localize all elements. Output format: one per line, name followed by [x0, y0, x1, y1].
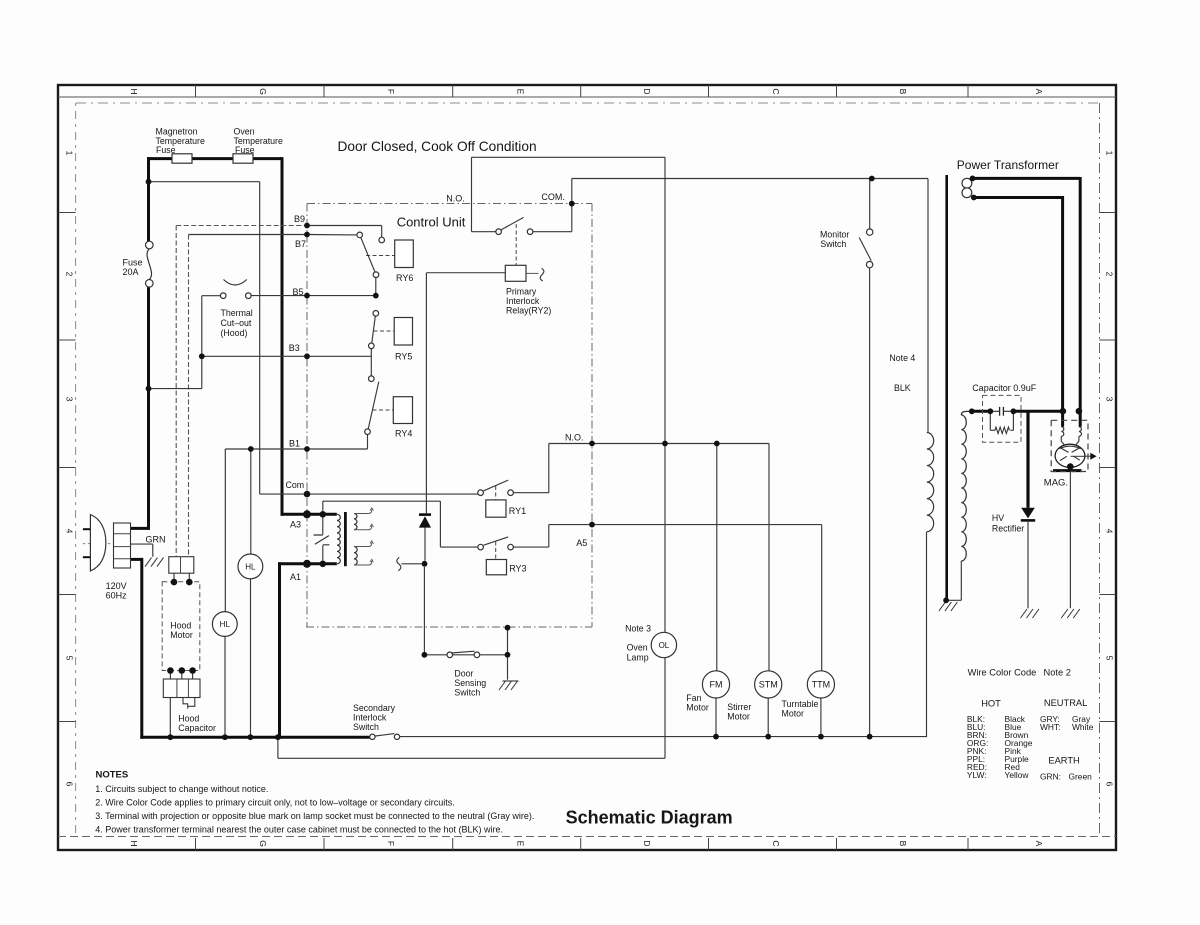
- svg-text:A: A: [1034, 89, 1044, 95]
- svg-text:Monitor: Monitor: [820, 230, 849, 240]
- svg-text:NOTES: NOTES: [96, 770, 129, 781]
- svg-text:BLK: BLK: [894, 383, 911, 393]
- svg-text:Control Unit: Control Unit: [397, 215, 466, 230]
- svg-text:Hood: Hood: [170, 621, 191, 631]
- svg-text:Switch: Switch: [353, 722, 379, 732]
- svg-text:B: B: [898, 841, 908, 847]
- svg-text:A3: A3: [290, 520, 301, 530]
- svg-text:Yellow: Yellow: [1005, 770, 1030, 780]
- svg-text:20A: 20A: [123, 267, 139, 277]
- svg-text:FM: FM: [710, 680, 723, 690]
- svg-text:E: E: [516, 841, 526, 847]
- svg-text:A1: A1: [290, 572, 301, 582]
- svg-text:5: 5: [65, 656, 75, 661]
- svg-text:Cut–out: Cut–out: [221, 318, 252, 328]
- svg-text:Door Closed, Cook Off Conditio: Door Closed, Cook Off Condition: [338, 139, 537, 154]
- svg-text:B3: B3: [289, 343, 300, 353]
- svg-text:Fan: Fan: [686, 693, 701, 703]
- svg-text:Lamp: Lamp: [627, 653, 649, 663]
- svg-text:HL: HL: [220, 620, 231, 629]
- svg-text:Secondary: Secondary: [353, 703, 396, 713]
- svg-text:Schematic Diagram: Schematic Diagram: [566, 808, 733, 828]
- svg-text:5: 5: [1105, 656, 1115, 661]
- svg-text:F: F: [386, 89, 396, 94]
- svg-text:N.O.: N.O.: [565, 433, 584, 443]
- svg-text:Motor: Motor: [727, 712, 750, 722]
- svg-text:H: H: [129, 840, 139, 846]
- svg-text:Fuse: Fuse: [235, 145, 255, 155]
- svg-text:GRN: GRN: [146, 535, 166, 545]
- svg-text:B7: B7: [295, 239, 306, 249]
- svg-text:RY6: RY6: [396, 273, 413, 283]
- svg-text:B1: B1: [289, 439, 300, 449]
- svg-text:F: F: [386, 841, 396, 846]
- svg-text:4: 4: [1105, 529, 1115, 534]
- svg-text:B5: B5: [293, 287, 304, 297]
- svg-text:G: G: [258, 840, 268, 847]
- svg-text:Turntable: Turntable: [782, 699, 819, 709]
- svg-text:RY5: RY5: [395, 352, 412, 362]
- svg-text:Note 3: Note 3: [625, 624, 651, 634]
- svg-text:HV: HV: [992, 513, 1004, 523]
- svg-text:E: E: [516, 89, 526, 95]
- svg-text:Fuse: Fuse: [156, 145, 176, 155]
- svg-text:YLW:: YLW:: [967, 770, 987, 780]
- svg-text:Oven: Oven: [627, 643, 648, 653]
- svg-text:G: G: [258, 88, 268, 95]
- svg-text:D: D: [642, 88, 652, 94]
- svg-text:Thermal: Thermal: [221, 308, 253, 318]
- svg-text:60Hz: 60Hz: [106, 591, 128, 601]
- svg-text:Note 2: Note 2: [1044, 668, 1071, 678]
- svg-text:Switch: Switch: [820, 239, 846, 249]
- svg-text:Interlock: Interlock: [506, 296, 540, 306]
- svg-text:EARTH: EARTH: [1048, 755, 1079, 765]
- svg-text:2: 2: [1105, 272, 1115, 277]
- svg-text:Hood: Hood: [178, 714, 199, 724]
- svg-text:RY1: RY1: [509, 506, 526, 516]
- svg-text:Motor: Motor: [170, 630, 193, 640]
- svg-text:Stirrer: Stirrer: [727, 702, 751, 712]
- svg-text:Switch: Switch: [454, 687, 480, 697]
- svg-text:Primary: Primary: [506, 287, 537, 297]
- svg-text:Wire Color Code: Wire Color Code: [968, 668, 1037, 678]
- svg-text:Motor: Motor: [686, 703, 709, 713]
- svg-text:RY4: RY4: [395, 429, 412, 439]
- svg-text:Note 4: Note 4: [889, 353, 915, 363]
- svg-text:Magnetron: Magnetron: [156, 127, 198, 137]
- svg-text:Oven: Oven: [234, 127, 255, 137]
- svg-text:6: 6: [1105, 782, 1115, 787]
- svg-text:4. Power transformer terminal: 4. Power transformer terminal nearest th…: [95, 825, 503, 835]
- svg-text:Com: Com: [286, 480, 305, 490]
- svg-text:B9: B9: [294, 214, 305, 224]
- svg-text:2. Wire Color Code applies to: 2. Wire Color Code applies to primary ci…: [95, 797, 454, 807]
- svg-text:H: H: [129, 88, 139, 94]
- svg-text:C: C: [771, 840, 781, 846]
- svg-text:4: 4: [65, 529, 75, 534]
- svg-text:STM: STM: [759, 680, 778, 690]
- svg-text:Green: Green: [1069, 772, 1093, 782]
- svg-text:WHT:: WHT:: [1040, 722, 1060, 732]
- svg-text:A5: A5: [576, 538, 587, 548]
- svg-text:Motor: Motor: [782, 709, 805, 719]
- svg-text:OL: OL: [659, 641, 670, 650]
- svg-text:Rectifier: Rectifier: [992, 524, 1024, 534]
- svg-text:TTM: TTM: [812, 680, 831, 690]
- svg-text:Fuse: Fuse: [123, 258, 143, 268]
- svg-text:3: 3: [1105, 397, 1115, 402]
- svg-text:Relay(RY2): Relay(RY2): [506, 306, 551, 316]
- svg-text:A: A: [1034, 841, 1044, 847]
- svg-text:1: 1: [1105, 151, 1115, 156]
- svg-text:NEUTRAL: NEUTRAL: [1044, 698, 1087, 708]
- svg-text:Power Transformer: Power Transformer: [957, 158, 1059, 172]
- svg-text:B: B: [898, 89, 908, 95]
- svg-text:Interlock: Interlock: [353, 713, 387, 723]
- svg-text:(Hood): (Hood): [221, 328, 248, 338]
- svg-text:3. Terminal with projection o: 3. Terminal with projection or opposite …: [95, 811, 534, 821]
- svg-text:2: 2: [65, 272, 75, 277]
- svg-text:MAG.: MAG.: [1044, 478, 1068, 489]
- svg-text:1. Circuits subject to change: 1. Circuits subject to change without no…: [95, 784, 268, 794]
- svg-text:D: D: [642, 840, 652, 846]
- svg-text:N.O.: N.O.: [446, 194, 465, 204]
- svg-text:3: 3: [65, 397, 75, 402]
- svg-text:COM.: COM.: [541, 192, 565, 202]
- svg-text:120V: 120V: [106, 581, 127, 591]
- svg-text:HL: HL: [245, 562, 256, 571]
- svg-text:6: 6: [65, 782, 75, 787]
- svg-text:Capacitor: Capacitor: [178, 723, 216, 733]
- svg-text:White: White: [1072, 722, 1094, 732]
- svg-text:GRN:: GRN:: [1040, 772, 1061, 782]
- svg-text:Capacitor 0.9uF: Capacitor 0.9uF: [972, 383, 1037, 393]
- svg-text:RY3: RY3: [509, 564, 526, 574]
- svg-text:C: C: [771, 88, 781, 94]
- svg-text:HOT: HOT: [981, 699, 1001, 709]
- svg-text:1: 1: [65, 151, 75, 156]
